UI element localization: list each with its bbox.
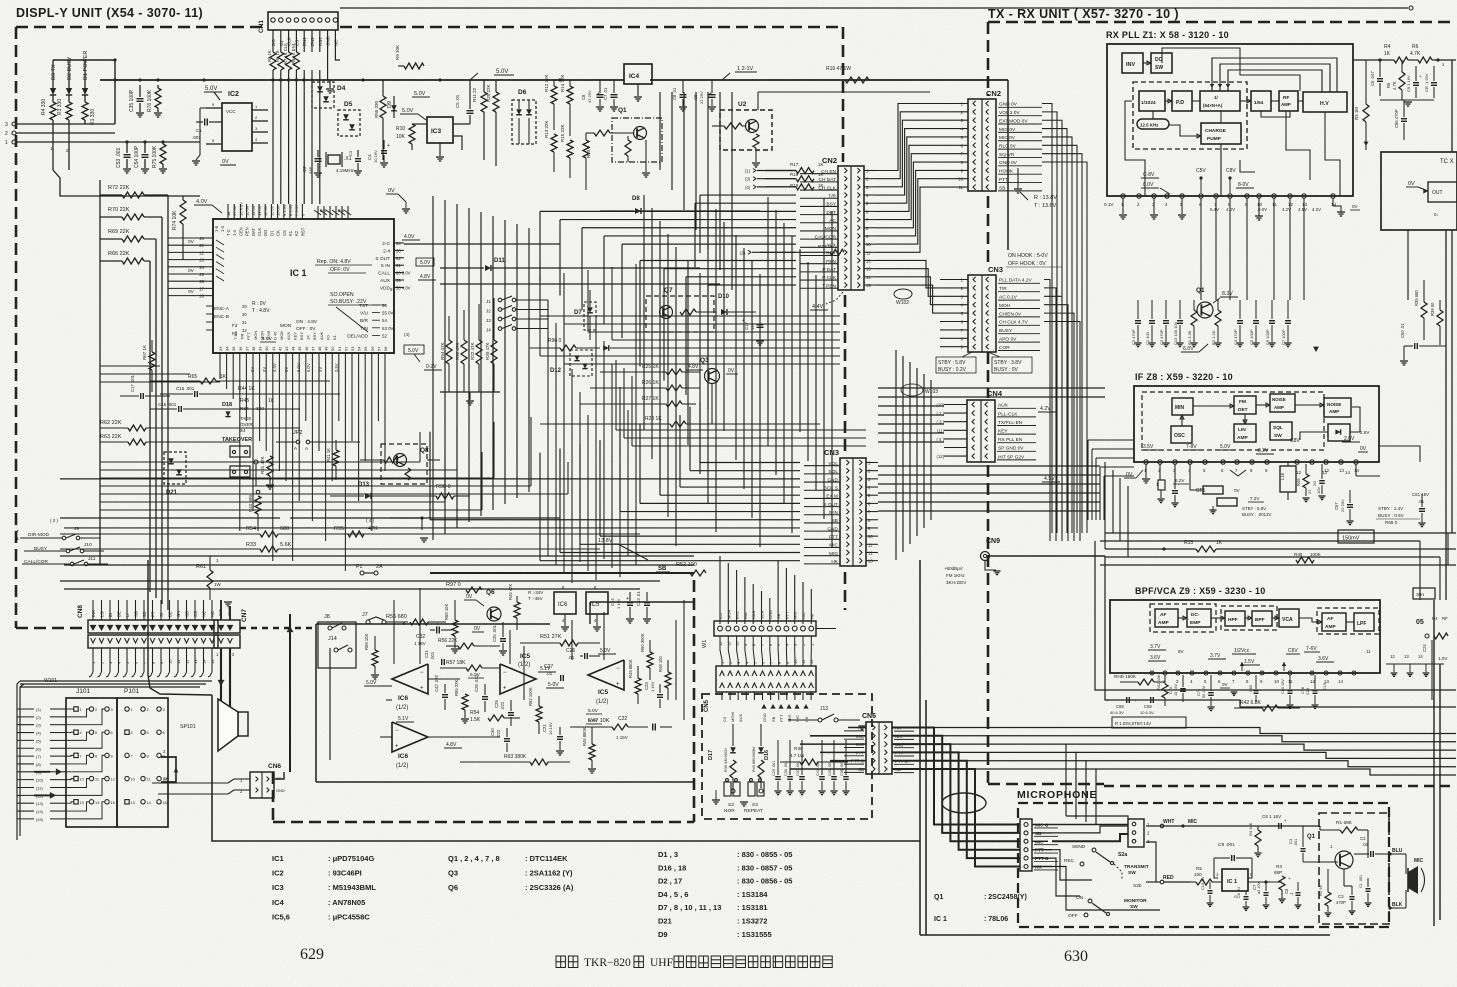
svg-text:R74 10K: R74 10K	[172, 210, 178, 230]
block 30n small	[1413, 588, 1435, 599]
svg-text:S3: S3	[752, 802, 758, 808]
svg-text:C-8V: C-8V	[1143, 172, 1155, 178]
svg-text:MICROPHONE: MICROPHONE	[1017, 789, 1097, 801]
svg-text:: 830 - 0857 - 05: : 830 - 0857 - 05	[737, 863, 792, 872]
display unit dashed border	[16, 27, 845, 822]
svg-text:5.0V: 5.0V	[588, 708, 599, 714]
switch S3 REPEAT	[740, 779, 764, 814]
svg-text:C4: C4	[367, 154, 372, 160]
resistor R1 68K mic	[1320, 820, 1368, 858]
svg-text:AF: AF	[1160, 612, 1166, 618]
svg-text:R20 22K: R20 22K	[486, 84, 491, 102]
jumper J8	[324, 614, 346, 630]
connector W1 row1	[702, 600, 836, 648]
svg-text:R95: R95	[334, 526, 344, 532]
svg-text:33P: 33P	[308, 167, 313, 174]
wire long buses mid	[878, 388, 1105, 511]
resistor R69 22K	[100, 229, 156, 242]
resistor R49 880K	[628, 659, 641, 704]
svg-text:R52 100: R52 100	[676, 562, 697, 568]
svg-text:DO: DO	[263, 229, 268, 236]
svg-text:C54 100P: C54 100P	[134, 145, 140, 168]
block TCXO	[1381, 152, 1457, 230]
resistor R14 22K	[560, 74, 573, 136]
block IF Z8	[1134, 372, 1379, 462]
svg-text:APO 0V: APO 0V	[999, 337, 1017, 343]
resistor R27 1K	[580, 396, 696, 407]
wire rows mid-left	[50, 516, 560, 542]
capacitor C68 C69 wires	[1106, 698, 1165, 703]
svg-text:R4 330: R4 330	[41, 99, 47, 115]
svg-text:R : 13.8V: R : 13.8V	[1034, 195, 1057, 201]
svg-text:R72 22K: R72 22K	[108, 185, 130, 191]
svg-text:10: 10	[1274, 679, 1279, 684]
svg-text:14: 14	[95, 801, 99, 805]
svg-text:D2 , 17: D2 , 17	[658, 877, 682, 886]
svg-text:C43 .01: C43 .01	[636, 591, 641, 606]
svg-text:+: +	[626, 596, 629, 602]
svg-text:R4 10K: R4 10K	[1248, 822, 1253, 836]
BPF pin row	[1150, 671, 1356, 684]
capacitor C5 .1 mic	[1284, 882, 1301, 908]
svg-text:5.0V: 5.0V	[414, 91, 426, 97]
diode D8	[600, 196, 760, 214]
svg-text:5.1V: 5.1V	[398, 716, 409, 722]
svg-text:CN7: CN7	[241, 609, 248, 622]
title DISPLAY UNIT	[16, 6, 203, 20]
svg-text:57: 57	[376, 346, 381, 351]
svg-text:CR .1 25V: CR .1 25V	[1424, 73, 1429, 92]
svg-text:AUX: AUX	[998, 403, 1009, 409]
wire CN3 txrx right fan	[1044, 280, 1080, 542]
svg-text:R54: R54	[470, 710, 479, 716]
svg-text:C60 10V: C60 10V	[1281, 679, 1285, 694]
connector CN7	[214, 600, 248, 657]
svg-text:3KH↓DEV: 3KH↓DEV	[946, 580, 966, 585]
IC U2 IC2	[206, 91, 268, 151]
svg-text:C53 .001: C53 .001	[116, 147, 122, 168]
svg-text:+: +	[436, 622, 439, 628]
block DC-EMP	[1178, 609, 1211, 627]
svg-text:C5V: C5V	[1196, 168, 1206, 174]
svg-text:BUSY : .0012V: BUSY : .0012V	[1242, 512, 1272, 517]
svg-text:Q8: Q8	[420, 447, 429, 454]
svg-text:R33: R33	[246, 542, 256, 548]
capacitor C5 .01	[455, 80, 474, 124]
title TX-RX UNIT	[988, 7, 1179, 21]
svg-text:IC3: IC3	[431, 128, 442, 135]
svg-text:2A: 2A	[376, 564, 383, 570]
svg-text:F1: F1	[356, 564, 362, 570]
LED D3 TX	[50, 64, 57, 102]
resistor R2 56 mic	[1318, 869, 1331, 916]
svg-text:IC2: IC2	[272, 869, 284, 878]
svg-text:Q1 , 2 , 4 , 7 , 8: Q1 , 2 , 4 , 7 , 8	[448, 854, 500, 863]
svg-text:R7 1K CLK: R7 1K CLK	[283, 43, 288, 64]
wire row under resistors	[440, 392, 500, 405]
svg-text:43: 43	[284, 346, 289, 351]
svg-text:J9: J9	[74, 526, 79, 532]
svg-text:470P: 470P	[1336, 900, 1346, 905]
svg-text:C8V: C8V	[1290, 438, 1300, 444]
op-amp IC6 A	[364, 664, 460, 711]
svg-text:R9 10K: R9 10K	[395, 45, 400, 60]
resistor R55b 22K	[454, 679, 469, 723]
svg-text:680: 680	[280, 526, 289, 532]
svg-text:R97 0: R97 0	[446, 582, 461, 588]
svg-text:15: 15	[111, 801, 115, 805]
svg-text:BUSY : 0.2V: BUSY : 0.2V	[938, 367, 967, 373]
svg-text:5.0V: 5.0V	[408, 348, 419, 354]
diode D17	[708, 724, 736, 793]
svg-text:(8): (8)	[36, 762, 42, 767]
svg-text:J2: J2	[486, 309, 491, 314]
svg-text:33: 33	[396, 248, 401, 253]
resistor R3 330	[57, 99, 72, 124]
svg-text:LPF: LPF	[1357, 621, 1366, 627]
svg-text:CN5: CN5	[704, 699, 710, 712]
svg-text:R70 22K: R70 22K	[108, 207, 130, 213]
svg-text:3.6V: 3.6V	[1150, 655, 1161, 661]
connector CN1	[258, 12, 338, 34]
svg-text:R41 33K: R41 33K	[1156, 674, 1161, 690]
jumper JP2	[276, 430, 360, 451]
svg-text:R42 6.8K: R42 6.8K	[1240, 700, 1262, 706]
svg-text:OUT: OUT	[1432, 190, 1443, 196]
svg-text:AMP: AMP	[1281, 102, 1291, 107]
svg-text:2.6V: 2.6V	[1344, 436, 1355, 442]
svg-text:F3: F3	[232, 323, 238, 328]
resistor R6 4.7K	[1408, 44, 1456, 63]
capacitor C9 1 16V	[1406, 66, 1422, 98]
svg-text:J7: J7	[362, 612, 368, 618]
resistor R35 680	[1414, 280, 1427, 340]
svg-text:1K: 1K	[220, 374, 227, 380]
svg-text:R42 680: R42 680	[248, 494, 253, 512]
svg-text:(64×N+A): (64×N+A)	[1203, 103, 1223, 108]
svg-text:C8 .01: C8 .01	[672, 87, 677, 100]
svg-text:47: 47	[310, 346, 315, 351]
svg-text:R46: R46	[1296, 478, 1301, 486]
wire drops to W1	[720, 556, 811, 600]
block divider 64xN+A	[1192, 91, 1240, 111]
svg-text:R13 22K: R13 22K	[544, 120, 549, 138]
wire drops to mic connector	[1066, 744, 1128, 826]
capacitor C35 100P	[129, 85, 144, 117]
svg-text:35: 35	[231, 346, 236, 351]
svg-text:4.7K: 4.7K	[1392, 81, 1397, 90]
svg-text:D1 , 3: D1 , 3	[658, 850, 678, 859]
svg-text:47 25V: 47 25V	[587, 90, 592, 103]
audio block enclosure	[316, 602, 694, 782]
svg-text:R65 0: R65 0	[1385, 520, 1398, 525]
svg-text:49: 49	[324, 346, 329, 351]
svg-text:R55 680: R55 680	[386, 614, 407, 620]
svg-text:CALL: CALL	[378, 271, 390, 277]
capacitor C29 .022	[494, 700, 514, 726]
svg-text:(1/2): (1/2)	[396, 763, 408, 769]
capacitor C42 .022	[434, 674, 448, 710]
svg-text:9: 9	[111, 754, 113, 758]
svg-text:AC 0.1V: AC 0.1V	[999, 295, 1018, 301]
svg-text:VCC: VCC	[226, 109, 236, 114]
svg-text:R1 68K: R1 68K	[1336, 820, 1353, 826]
svg-text:C3: C3	[348, 150, 353, 156]
svg-text:10 6.3V: 10 6.3V	[1140, 710, 1154, 715]
svg-text:P101: P101	[124, 688, 140, 695]
connector W1 row2	[716, 659, 816, 700]
svg-text:13: 13	[193, 659, 198, 664]
svg-text:3.5V: 3.5V	[1143, 444, 1154, 450]
svg-text:4.6V: 4.6V	[262, 336, 273, 342]
svg-text:W1: W1	[702, 640, 708, 648]
svg-text:PTT: PTT	[999, 177, 1008, 183]
page number 629	[300, 946, 324, 963]
svg-text:51: 51	[337, 346, 342, 351]
svg-text:DET: DET	[1238, 407, 1248, 413]
svg-text:8-0V: 8-0V	[1238, 182, 1249, 188]
svg-text:OFF: 0V: OFF: 0V	[330, 267, 350, 273]
svg-text:SB: SB	[771, 716, 776, 722]
svg-text:AMP: AMP	[1237, 435, 1248, 441]
svg-text:10: 10	[80, 778, 84, 782]
svg-text:CH CLK 4.7V: CH CLK 4.7V	[999, 320, 1029, 326]
svg-text:DAT: DAT	[251, 227, 256, 236]
block MICROPHONE	[1017, 789, 1389, 927]
svg-text:BPF/VCA Z9 : X59 - 3230 -: BPF/VCA Z9 : X59 - 3230 - 10	[1135, 586, 1266, 596]
svg-text:R8 1K EN1: R8 1K EN1	[291, 42, 296, 64]
table Q list	[448, 854, 574, 892]
svg-text:(14): (14)	[36, 809, 44, 814]
svg-text:7 5.0V: 7 5.0V	[294, 204, 299, 216]
wire bus rows to CN3	[60, 403, 840, 564]
svg-text:52: 52	[343, 346, 348, 351]
svg-text:ON : 4.8V: ON : 4.8V	[296, 319, 318, 325]
wire 5V rail	[100, 78, 1008, 250]
resistor R59 10K	[364, 633, 379, 679]
resistor R75 100K	[152, 142, 167, 173]
svg-text:5.0V: 5.0V	[1220, 444, 1231, 450]
svg-text:MOH: MOH	[999, 303, 1011, 309]
wire row 142	[115, 140, 200, 143]
net 5.0V rail label	[470, 69, 514, 80]
svg-text:AMP: AMP	[1158, 620, 1169, 626]
svg-text:50 10V: 50 10V	[1202, 685, 1206, 698]
svg-text:GND 0V: GND 0V	[999, 160, 1018, 166]
resistor R3 680 mic	[1274, 858, 1291, 903]
svg-text:31: 31	[242, 320, 247, 325]
svg-text:( 4 ): ( 4 )	[366, 518, 375, 523]
W1 row fan	[720, 636, 811, 666]
svg-text:H.V: H.V	[1320, 101, 1329, 107]
svg-text:IC1: IC1	[272, 854, 284, 863]
svg-text:IC5,6: IC5,6	[272, 912, 290, 921]
net 4.4V CN2	[810, 292, 843, 310]
svg-text:MON: MON	[825, 226, 837, 232]
svg-text:48: 48	[317, 346, 322, 351]
svg-text:(3): (3)	[36, 723, 42, 728]
capacitor C22 1 16V	[616, 716, 672, 740]
svg-text:11: 11	[147, 778, 151, 782]
capacitor C17 .001	[120, 374, 170, 399]
net 0V IC2	[192, 108, 236, 165]
block INV	[1122, 53, 1143, 73]
svg-text:RHD 150K: RHD 150K	[1114, 674, 1137, 679]
svg-text:PTT: PTT	[779, 714, 784, 722]
text Q1 IC1 mic types	[934, 894, 1027, 923]
svg-text:U2: U2	[738, 101, 747, 108]
svg-text:IC3: IC3	[272, 883, 284, 892]
svg-text:D6: D6	[518, 89, 527, 96]
svg-text:AMP: AMP	[1274, 405, 1284, 410]
microphone element	[1408, 858, 1425, 894]
capacitor C53 .001	[116, 142, 131, 173]
svg-text:.022: .022	[500, 701, 505, 710]
svg-text:0.1V: 0.1V	[1104, 202, 1114, 207]
svg-text:(4): (4)	[404, 332, 410, 337]
wire verticals center-low	[548, 300, 636, 583]
svg-text:T : 13.6V: T : 13.6V	[1034, 203, 1057, 209]
svg-text:R18: R18	[790, 172, 799, 177]
net hook voltages	[1006, 253, 1062, 267]
svg-text:12: 12	[809, 659, 814, 664]
CN1 vertical wires	[273, 34, 340, 204]
svg-text:5.0V: 5.0V	[205, 86, 217, 92]
svg-text:(15): (15)	[36, 817, 44, 822]
svg-text:C60 .01: C60 .01	[1400, 323, 1405, 338]
capacitor C8 .01 mic	[1237, 887, 1249, 911]
svg-text:NOISE: NOISE	[1272, 397, 1286, 402]
svg-text:SW: SW	[1155, 65, 1163, 71]
svg-text:Q1: Q1	[934, 894, 943, 901]
resistor R22 47K	[470, 304, 482, 392]
svg-text:AUX: AUX	[738, 713, 743, 722]
svg-text:56: 56	[370, 346, 375, 351]
svg-text:R41 1K: R41 1K	[326, 448, 331, 462]
capacitor C60 .01	[1400, 323, 1446, 365]
svg-text:R52 100K: R52 100K	[528, 687, 533, 706]
svg-text:R76 100K: R76 100K	[147, 89, 153, 112]
svg-text:T : 4.8V: T : 4.8V	[252, 308, 270, 314]
diode D21	[164, 452, 186, 496]
resistor R61 1W	[196, 556, 232, 606]
jumper J13	[788, 706, 866, 730]
svg-text:13: 13	[1339, 468, 1344, 473]
net STBY labels CN3	[936, 352, 1032, 373]
resistor R5 100 mic	[1190, 866, 1222, 885]
IC1 top pin labels	[194, 188, 410, 236]
svg-text:R45 47K: R45 47K	[508, 583, 513, 600]
switch S2 NOR	[712, 779, 740, 814]
svg-text:IC4: IC4	[629, 73, 640, 80]
wire bus into IF left	[1088, 440, 1134, 520]
svg-text:0V: 0V	[1222, 682, 1229, 687]
svg-text:1/64: 1/64	[1254, 100, 1264, 106]
svg-text:: 1S31555: : 1S31555	[737, 930, 772, 939]
svg-text:13: 13	[1404, 654, 1409, 659]
svg-text:10: 10	[793, 659, 798, 664]
svg-text:R3: R3	[1276, 864, 1282, 869]
wire top long lines	[340, 6, 1413, 27]
svg-text:T/R: T/R	[828, 193, 836, 199]
connector CN2 txrx	[940, 89, 1042, 191]
resistor R65 1K	[150, 374, 330, 384]
wire horizontals feeding CN3 zone	[540, 261, 866, 446]
resistor R72 22K	[100, 185, 168, 198]
resistor R66 22K	[100, 251, 150, 264]
svg-text:4.5V: 4.5V	[1298, 207, 1307, 212]
svg-text:.01: .01	[1418, 499, 1425, 504]
svg-text:11: 11	[1366, 649, 1371, 654]
svg-text:58 4.8V: 58 4.8V	[396, 285, 411, 290]
svg-text:D7: D7	[574, 310, 582, 316]
resistor R33 5.6K	[60, 542, 600, 552]
op-amp IC5 A	[500, 653, 556, 694]
resistor R1 330	[82, 102, 96, 125]
svg-text:: AN78N05: : AN78N05	[328, 898, 365, 907]
svg-text:22: 22	[1307, 489, 1312, 494]
IC1 bottom pins	[218, 330, 388, 361]
svg-text:14: 14	[1338, 679, 1343, 684]
svg-text:1-6: 1-6	[214, 225, 219, 232]
svg-text:R35 680: R35 680	[1414, 289, 1419, 306]
svg-text:3.5V: 3.5V	[334, 363, 339, 372]
svg-text:R14 22K: R14 22K	[560, 74, 565, 92]
oval 12.5KHz	[1137, 111, 1169, 129]
svg-text:C21: C21	[542, 724, 547, 732]
svg-text:C9 .001: C9 .001	[1218, 842, 1235, 848]
block P.D	[1165, 91, 1192, 111]
svg-text:0V: 0V	[222, 159, 229, 165]
svg-text:40: 40	[264, 346, 269, 351]
svg-text:+: +	[616, 682, 620, 688]
svg-text:R92 47K: R92 47K	[455, 342, 460, 360]
svg-text:1 16V: 1 16V	[616, 598, 621, 609]
capacitor C9 22 25V	[693, 80, 716, 111]
svg-text:R51 27K: R51 27K	[540, 634, 562, 640]
resistor R15 22K	[560, 124, 573, 178]
svg-text:5: 5	[147, 731, 149, 735]
capacitor C12 1 16V	[742, 312, 764, 345]
svg-text:R3 330: R3 330	[57, 99, 63, 115]
svg-text:7-6V: 7-6V	[1306, 646, 1317, 652]
svg-text:STBY : 5.8V: STBY : 5.8V	[1242, 506, 1266, 511]
resistor R4 10K mic	[1248, 822, 1262, 856]
svg-text:(10): (10)	[937, 403, 945, 408]
svg-text:Q1: Q1	[618, 107, 627, 114]
svg-text:C26: C26	[566, 648, 575, 654]
svg-text:BUSY: BUSY	[999, 328, 1013, 334]
svg-text:8.3V: 8.3V	[1222, 291, 1233, 297]
svg-text:C29 .001: C29 .001	[772, 761, 776, 776]
svg-text:1-4: 1-4	[220, 225, 225, 232]
svg-text:47K: 47K	[368, 526, 378, 532]
svg-text:K1: K1	[332, 334, 337, 340]
connector CN3 display	[823, 448, 878, 566]
svg-text:S2: S2	[728, 802, 734, 808]
speaker SP101	[180, 699, 248, 751]
transistor Q6	[464, 589, 501, 632]
svg-text:R96 0: R96 0	[548, 338, 562, 344]
svg-text:C1: C1	[196, 128, 202, 133]
resistor R24 1K	[760, 244, 844, 255]
wire CN6 feeds	[790, 728, 866, 770]
svg-text:7-8V: 7-8V	[1186, 444, 1197, 450]
svg-text:1W: 1W	[214, 582, 222, 587]
svg-text:J14: J14	[328, 636, 337, 642]
block AF AMP 2	[1299, 613, 1346, 631]
svg-text:: μPC4558C: : μPC4558C	[328, 912, 370, 921]
